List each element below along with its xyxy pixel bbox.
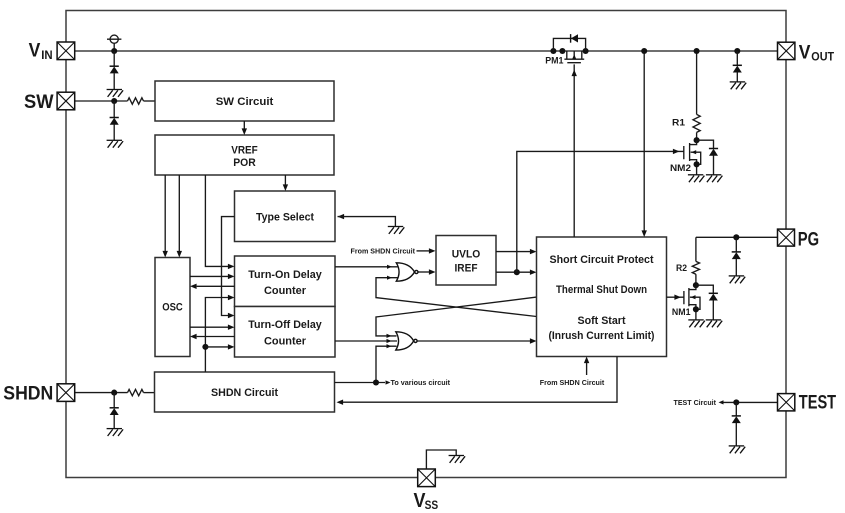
svg-text:Short Circuit Protect: Short Circuit Protect (550, 254, 654, 266)
block OSC (155, 258, 190, 357)
wire R2 to NM1 drain (695, 274, 697, 285)
block Turn-On Delay Counter (235, 256, 336, 307)
svg-text:To various circuit: To various circuit (391, 378, 451, 387)
svg-text:Turn-Off Delay: Turn-Off Delay (248, 319, 322, 331)
svg-text:Turn-On Delay: Turn-On Delay (248, 269, 322, 281)
node rail tap R1 (694, 48, 700, 54)
arrow NOR1 input bottom (387, 276, 392, 280)
arrow up to PM1 gate (572, 70, 577, 77)
wire NOR1 to UVLO (418, 271, 430, 273)
wire NM2 diode to ground (713, 156, 715, 175)
arrow into protect c (530, 338, 537, 343)
node PM1 drain (550, 48, 556, 54)
wire Turn-On to NOR1 (335, 266, 398, 268)
node NM2 source (694, 161, 700, 167)
wire NOR2 input bottom net (376, 346, 397, 382)
wire PG to R2 (695, 237, 697, 261)
arrow NM1 body (691, 295, 696, 299)
arrow into VREF POR (242, 128, 247, 135)
svg-text:SW Circuit: SW Circuit (216, 96, 274, 108)
arrow into UVLO bottom (429, 269, 436, 274)
arrow into Type Select right (338, 214, 345, 219)
wire Turn-Off to OSC (197, 336, 235, 338)
wire protect to PM1 gate (573, 64, 575, 237)
arrow into UVLO top (429, 248, 436, 253)
ESD diode at SW (110, 118, 119, 125)
node SHDN net junction (202, 344, 208, 350)
wire Type Select to ground tie (338, 217, 396, 227)
pin SHDN (57, 384, 75, 402)
arrow PM1 body (572, 54, 576, 59)
ground below VOUT diode (730, 82, 747, 89)
wire NM1 body diode (696, 285, 713, 293)
arrow into Turn-On mid (228, 274, 235, 279)
wire VREF to OSC left (164, 175, 166, 252)
wire protect to SHDN Circuit (341, 357, 617, 403)
ground below NM2 source (688, 175, 705, 182)
body diode of PM1 (571, 34, 578, 43)
wire SHDN net to Turn-Off (205, 346, 229, 348)
wire protect to NM1 gate (667, 296, 684, 298)
svg-text:PG: PG (798, 228, 819, 250)
resistor R1 (693, 114, 700, 132)
arrow into protect bottom (584, 357, 589, 364)
wire VSS to ground (426, 450, 456, 469)
node PG diode tap (733, 234, 739, 240)
wire VIN-VOUT rail (75, 50, 778, 52)
ground below NM1 source (688, 320, 705, 327)
arrow NOR2 input bottom (387, 344, 392, 348)
wire UVLO to protect bottom (496, 271, 531, 273)
arrow into NM1 gate (674, 295, 681, 300)
wire SHDN resistor to SHDN Circuit (144, 392, 155, 394)
arrow into Type Select (283, 184, 288, 191)
wire SW pin to resistor (75, 100, 128, 102)
wire PG ESD stub (735, 237, 737, 252)
wire NOR2 input top net (376, 297, 537, 336)
svg-text:Thermal Shut Down: Thermal Shut Down (556, 284, 647, 296)
arrow into SHDN Circuit (337, 400, 344, 405)
arrow into protect a (530, 249, 537, 254)
node PM1 source (559, 48, 565, 54)
wire VIN ESD diode stub (113, 51, 115, 66)
wire rail to protect (643, 51, 645, 232)
or-gate NOR1 (396, 263, 418, 281)
node VIN clamp junction (111, 48, 117, 54)
block VREF POR (155, 135, 334, 175)
node NM1 drain (693, 282, 699, 288)
pin VSS (418, 469, 436, 487)
ground of VSS (449, 456, 466, 463)
ESD diode at VOUT (733, 65, 742, 72)
wire rail to R1 (696, 51, 698, 114)
body diode of NM2 (709, 149, 718, 156)
resistor R2 (692, 261, 699, 274)
ground of Type Select tie (388, 227, 405, 234)
pin VOUT (778, 42, 795, 59)
wire NOR2 to protect (418, 340, 532, 342)
wire UVLO to protect top (496, 251, 531, 253)
svg-text:TEST Circuit: TEST Circuit (674, 398, 717, 407)
clamp circle symbol at VIN (107, 35, 121, 51)
IC boundary (66, 11, 786, 478)
pin SW (57, 92, 75, 110)
or-gate NOR2 (396, 332, 417, 350)
transistor NM2 (684, 140, 701, 175)
wire SW Circuit to VREF POR (243, 121, 245, 130)
ESD diode at VIN (110, 66, 119, 73)
ground below NM1 diode (706, 320, 723, 327)
svg-text:R2: R2 (676, 263, 687, 273)
node SW junction (111, 98, 117, 104)
arrow into protect top (642, 230, 647, 237)
block protection circuits (537, 237, 667, 357)
arrow into Turn-Off top (228, 313, 235, 318)
wire SW resistor to SW Circuit (144, 100, 156, 102)
node rail tap for protect (641, 48, 647, 54)
resistor SW input (128, 98, 144, 104)
wire From SHDN to UVLO (417, 250, 431, 252)
wire PM1 body diode loop (553, 38, 585, 51)
wire SHDN diode to ground (113, 415, 115, 429)
arrow NOR1 input top (387, 265, 392, 269)
svg-text:SHDN Circuit: SHDN Circuit (211, 387, 278, 399)
svg-text:R1: R1 (672, 117, 685, 127)
wire VIN diode to ground (113, 73, 115, 89)
node NM2 drain (694, 137, 700, 143)
ground below SW diode (107, 140, 124, 147)
block UVLO IREF (436, 236, 496, 286)
ground below TEST diode (729, 446, 746, 453)
wire TEST diode to ground (735, 423, 737, 446)
svg-text:Type Select: Type Select (256, 211, 314, 223)
svg-text:UVLO: UVLO (452, 248, 481, 260)
ESD diode at SHDN (110, 408, 119, 415)
arrow into protect b (530, 270, 537, 275)
wire R1 to NM2 drain (696, 132, 698, 140)
wire SHDN pin to resistor (75, 392, 128, 394)
arrow NOR2 input mid (387, 339, 392, 343)
resistor SHDN input (128, 389, 144, 395)
wire NM1 diode to ground (712, 300, 714, 320)
wire OSC to Turn-Off (190, 326, 229, 328)
arrow into Turn-On bottom (228, 295, 235, 300)
ground below PG diode (729, 276, 746, 283)
svg-text:Soft Start: Soft Start (578, 315, 626, 327)
ground below NM2 diode (706, 175, 723, 182)
wire Turn-Off to NOR2 (335, 340, 397, 342)
arrow to various circuit (386, 380, 391, 384)
arrow into OSC a (163, 251, 168, 258)
svg-text:VREF: VREF (231, 145, 258, 157)
wire NM2 body diode (697, 140, 714, 148)
svg-text:SHDN: SHDN (3, 383, 53, 405)
transistor PM1 (564, 51, 584, 63)
node SHDN output junction (373, 379, 379, 385)
wire PG diode to ground (735, 259, 737, 276)
wire OSC to Turn-On (190, 275, 229, 277)
wire From SHDN to protect bottom (586, 362, 588, 375)
wire VOUT ESD stub (736, 51, 738, 65)
node NM2 gate tap (514, 269, 520, 275)
block SHDN Circuit (155, 372, 335, 412)
wire TEST pin line (723, 401, 778, 403)
arrow into Turn-On top (228, 264, 235, 269)
svg-text:SW: SW (24, 91, 54, 113)
arrow into OSC from Turn-Off (190, 334, 197, 339)
node TEST junction (733, 399, 739, 405)
arrow into OSC from Turn-On (190, 284, 197, 289)
body diode of NM1 (709, 293, 718, 300)
svg-text:(Inrush Current Limit): (Inrush Current Limit) (549, 330, 655, 342)
svg-text:PM1: PM1 (545, 56, 563, 66)
wire NOR1 input bottom net (376, 278, 537, 317)
arrow into Turn-Off bottom (228, 344, 235, 349)
transistor NM1 (684, 285, 700, 320)
arrow into NM2 gate (673, 149, 680, 154)
svg-text:Counter: Counter (264, 285, 307, 297)
svg-text:NM1: NM1 (672, 307, 691, 317)
block SW Circuit (155, 81, 334, 121)
wire VREF to OSC right (178, 175, 180, 252)
ground below SHDN diode (107, 429, 124, 436)
pin VIN (57, 42, 75, 60)
ESD diode at PG (732, 252, 741, 259)
wire SHDN net to counters (205, 298, 229, 372)
wire NM2 gate net (517, 151, 684, 272)
svg-text:Counter: Counter (264, 336, 307, 348)
node NM1 source (693, 306, 699, 312)
node VOUT diode tap (734, 48, 740, 54)
node SHDN junction (111, 390, 117, 396)
svg-text:POR: POR (233, 157, 256, 169)
wire VOUT diode to ground (736, 72, 738, 82)
svg-text:From SHDN Circuit: From SHDN Circuit (351, 247, 416, 256)
svg-text:From SHDN Circuit: From SHDN Circuit (540, 378, 605, 387)
ground below VIN diode (107, 90, 124, 97)
block Turn-Off Delay Counter (235, 307, 336, 358)
arrow NM2 body (691, 150, 696, 154)
wire SW ESD stub (113, 101, 115, 118)
svg-text:TEST: TEST (799, 391, 836, 413)
svg-text:OSC: OSC (162, 301, 183, 313)
pin TEST (778, 394, 795, 411)
ESD diode at TEST (732, 416, 741, 423)
wire VREF to Turn-On Counter (205, 175, 229, 266)
wire Type Select to Turn-Off Counter (222, 217, 235, 316)
arrow to TEST circuit (719, 400, 724, 404)
wire SHDN Circuit output (335, 382, 386, 384)
block Type Select (235, 191, 336, 242)
wire VREF POR to Type Select (284, 175, 286, 186)
svg-text:NM2: NM2 (670, 163, 691, 173)
arrow into OSC b (177, 251, 182, 258)
wire TEST ESD stub (735, 402, 737, 416)
arrow into Turn-Off mid (228, 325, 235, 330)
wire SW diode to ground (113, 125, 115, 141)
wire PG line (696, 236, 778, 238)
pin PG (778, 229, 795, 246)
svg-text:IREF: IREF (455, 263, 478, 275)
node PM1 drain right (583, 48, 589, 54)
wire SHDN ESD stub (113, 393, 115, 408)
wire Turn-On to OSC (197, 285, 235, 287)
arrow NOR2 input top (387, 334, 392, 338)
